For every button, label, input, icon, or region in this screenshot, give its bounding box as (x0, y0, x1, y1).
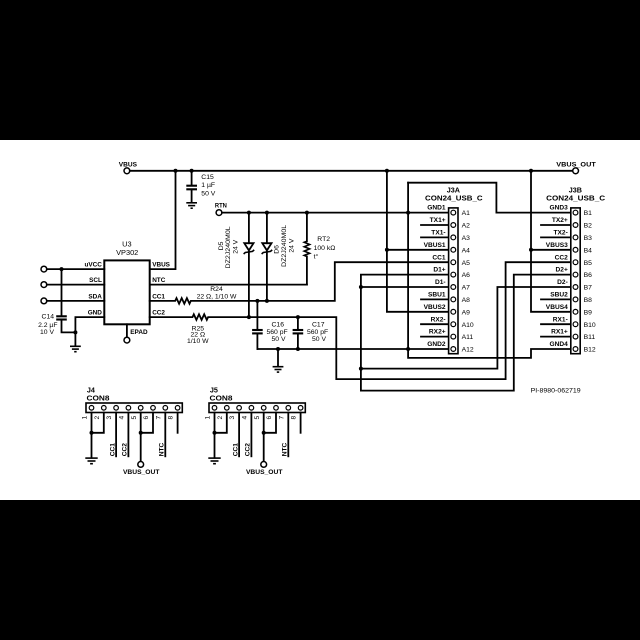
svg-text:CC2: CC2 (152, 310, 165, 317)
svg-text:B1: B1 (584, 210, 593, 217)
svg-text:VBUS1: VBUS1 (424, 242, 446, 249)
svg-text:A6: A6 (462, 272, 471, 279)
wire VBUS rail (130, 170, 573, 172)
wire GND2-GND4 link (below connectors) (408, 349, 571, 358)
wire TX2+ stub (541, 224, 571, 226)
junction GND2/C17 (296, 347, 300, 351)
zener diode D6 DZ2J240M0L (262, 213, 296, 301)
svg-text:DZ2J240M0L: DZ2J240M0L (225, 226, 232, 268)
junction J5 pins 5-6 (262, 431, 266, 435)
svg-text:B5: B5 (584, 260, 593, 267)
svg-text:D1+: D1+ (433, 267, 445, 274)
resistor R25 22 Ohm (CC2 net wire to J3B B5) (150, 262, 571, 379)
wire J5 pin8 stub (300, 413, 302, 433)
junction CC2/D5 (247, 315, 251, 319)
connector J3B CON24_USB_C (546, 185, 605, 353)
junction CC2/C17 (296, 315, 300, 319)
wire J4 pin3 CC1 stub (115, 413, 117, 457)
connector J3A CON24_USB_C (425, 185, 483, 353)
svg-text:1/10 W: 1/10 W (187, 338, 209, 345)
svg-text:A3: A3 (462, 235, 471, 242)
svg-text:1 µF: 1 µF (201, 182, 215, 189)
svg-text:VBUS: VBUS (152, 262, 170, 269)
svg-text:A1: A1 (462, 210, 471, 217)
svg-text:CON8: CON8 (210, 394, 233, 403)
svg-text:5: 5 (131, 416, 138, 420)
svg-text:24 V: 24 V (289, 238, 296, 252)
svg-text:VBUS2: VBUS2 (424, 304, 446, 311)
resistor R24 22 Ohm (CC1 net wire to J3A A5) (150, 262, 449, 304)
ground (C16/C17) (273, 349, 284, 372)
ground (J4) (85, 458, 97, 464)
svg-text:B3: B3 (584, 235, 593, 242)
svg-text:CC1: CC1 (432, 254, 446, 261)
svg-text:VBUS4: VBUS4 (546, 304, 568, 311)
svg-text:10 V: 10 V (40, 329, 54, 336)
ground (C15) (186, 203, 197, 208)
svg-text:CC2: CC2 (122, 443, 129, 457)
capacitor C15 (186, 171, 215, 203)
svg-text:1: 1 (205, 416, 212, 420)
svg-text:TX2+: TX2+ (552, 217, 568, 224)
wire VBUS3 to B4 (531, 249, 571, 251)
svg-text:7: 7 (278, 416, 285, 420)
svg-text:RX1+: RX1+ (551, 329, 568, 336)
svg-text:4: 4 (242, 416, 249, 420)
pin EPAD stub and terminal (124, 324, 148, 343)
svg-text:6: 6 (266, 416, 273, 420)
svg-text:1: 1 (82, 416, 89, 420)
wire SBU2 stub (541, 298, 571, 300)
wire SBU1 stub (421, 298, 449, 300)
wire uVCC (47, 268, 105, 270)
svg-text:C15: C15 (201, 174, 214, 181)
junction D1- (359, 285, 363, 289)
svg-text:CC1: CC1 (232, 443, 239, 457)
svg-text:B10: B10 (584, 322, 596, 329)
svg-text:SBU2: SBU2 (550, 292, 568, 299)
wire RX2+ stub (421, 336, 449, 338)
svg-text:uVCC: uVCC (84, 262, 102, 269)
svg-text:2: 2 (94, 416, 101, 420)
junction VBUS/U3 (174, 169, 178, 173)
svg-text:B8: B8 (584, 297, 593, 304)
capacitor C14 2.2uF (38, 269, 75, 336)
svg-text:SCL: SCL (89, 277, 102, 284)
svg-text:A4: A4 (462, 247, 471, 254)
zener diode D5 DZ2J240M0L (218, 213, 254, 318)
svg-text:NTC: NTC (282, 443, 289, 457)
svg-text:CON24_USB_C: CON24_USB_C (425, 194, 483, 203)
svg-text:TX2-: TX2- (554, 230, 568, 237)
ground (J5) (208, 458, 220, 464)
svg-text:A9: A9 (462, 309, 471, 316)
svg-text:4: 4 (119, 416, 126, 420)
svg-text:D2+: D2+ (556, 267, 568, 274)
wire GND3 link (over J3A to B1) (408, 183, 571, 213)
svg-text:B9: B9 (584, 309, 593, 316)
junction J4 pins 5-6 (139, 431, 143, 435)
capacitor C17 560 pF (293, 317, 329, 349)
junction VBUS/J3B column (529, 169, 533, 173)
svg-text:A5: A5 (462, 260, 471, 267)
junction CC1/D6 (265, 299, 269, 303)
svg-text:100 kΩ: 100 kΩ (314, 245, 336, 252)
svg-text:B4: B4 (584, 247, 593, 254)
svg-text:GND: GND (88, 310, 103, 317)
junction GND2/GND column (406, 347, 410, 351)
svg-text:B7: B7 (584, 285, 593, 292)
wire U3 GND pin down (75, 317, 104, 346)
junction GND/C14 (73, 330, 77, 334)
svg-text:VBUS_OUT: VBUS_OUT (123, 469, 160, 476)
svg-text:C14: C14 (42, 313, 55, 320)
connector J5 CON8 (209, 386, 305, 413)
wire VBUS column to VBUS1/VBUS2 (A4,A9) (387, 171, 449, 312)
wire J5 pin7 NTC stub (287, 413, 289, 457)
wire J5 pin3 CC1 stub (238, 413, 240, 457)
node J5 VBUS_OUT terminal (246, 462, 283, 476)
svg-text:VBUS: VBUS (119, 162, 138, 169)
wire RTN to GND junction (222, 212, 408, 214)
svg-text:50 V: 50 V (272, 336, 286, 343)
svg-text:22 Ω, 1/10 W: 22 Ω, 1/10 W (197, 293, 237, 300)
svg-text:5: 5 (254, 416, 261, 420)
svg-text:A10: A10 (462, 322, 474, 329)
svg-text:TX1-: TX1- (431, 230, 445, 237)
node RTN terminal (215, 203, 227, 216)
svg-text:RTN: RTN (215, 203, 227, 210)
wire RX2- stub (421, 323, 449, 325)
wire SDA (47, 300, 105, 302)
wire RX1- stub (541, 323, 571, 325)
svg-text:NTC: NTC (152, 277, 166, 284)
svg-text:t°: t° (314, 252, 319, 260)
node VBUS_OUT terminal (556, 162, 596, 174)
svg-text:RX2-: RX2- (431, 316, 446, 323)
IC U3 VP302 (104, 239, 149, 324)
svg-text:RX2+: RX2+ (429, 329, 446, 336)
junction GND/RTN/A1 (406, 211, 410, 215)
junction VBUS/J3A column (385, 169, 389, 173)
capacitor C16 560 pF (252, 301, 288, 349)
svg-text:50 V: 50 V (201, 190, 215, 197)
svg-text:CON24_USB_C: CON24_USB_C (546, 194, 605, 203)
wire D2- link to B7 (361, 287, 571, 369)
svg-text:GND2: GND2 (427, 341, 446, 348)
wire VBUS_OUT column to VBUS3/VBUS4 (B4,B9) (531, 171, 571, 312)
wire J5 pin4 CC2 stub (250, 413, 252, 457)
svg-text:A7: A7 (462, 285, 471, 292)
wire J4 pin2 tie (92, 413, 104, 433)
junction GND2/ground tap (276, 347, 280, 351)
node J4 VBUS_OUT terminal (123, 462, 160, 476)
svg-text:C17: C17 (312, 322, 325, 329)
wire GND2 row (C16/C17 bottoms to J3A A12) (257, 348, 448, 350)
svg-text:GND3: GND3 (549, 205, 568, 212)
wire VBUS to U3 VBUS pin (150, 171, 176, 269)
svg-text:B11: B11 (584, 334, 596, 341)
svg-text:SDA: SDA (88, 293, 102, 300)
wire D1- to A7 (361, 286, 449, 288)
svg-text:3: 3 (229, 416, 236, 420)
junction VBUS/C15 (190, 169, 194, 173)
svg-text:GND1: GND1 (427, 205, 446, 212)
svg-text:VBUS_OUT: VBUS_OUT (246, 469, 283, 476)
svg-text:50 V: 50 V (312, 336, 326, 343)
svg-text:A2: A2 (462, 223, 471, 230)
wire J4 pin8 stub (177, 413, 179, 433)
wire TX2- stub (541, 236, 571, 238)
svg-text:PI-8980-062719: PI-8980-062719 (531, 388, 581, 395)
svg-text:NTC: NTC (159, 443, 166, 457)
wire J4 pin7 NTC stub (164, 413, 166, 457)
wire TX1- stub (421, 236, 449, 238)
svg-text:24 V: 24 V (233, 239, 240, 253)
svg-text:B12: B12 (584, 347, 596, 354)
svg-text:RT2: RT2 (317, 236, 330, 243)
wire J4 pin4 CC2 stub (127, 413, 129, 457)
node uVCC terminal (41, 266, 47, 272)
wire TX1+ stub (421, 224, 449, 226)
svg-text:8: 8 (168, 416, 175, 420)
svg-text:7: 7 (155, 416, 162, 420)
node SDA terminal (41, 298, 47, 304)
junction RTN/D6 (265, 211, 269, 215)
wire SCL (47, 284, 105, 286)
connector J4 CON8 (86, 386, 182, 413)
node VBUS terminal (119, 162, 138, 174)
svg-text:CC1: CC1 (109, 443, 116, 457)
node SCL terminal (41, 282, 47, 288)
svg-text:CC1: CC1 (152, 293, 165, 300)
wire J5 pin1 to ground (214, 413, 216, 458)
svg-text:B6: B6 (584, 272, 593, 279)
svg-text:DZ2J240M0L: DZ2J240M0L (281, 225, 288, 267)
junction RTN/D5 (247, 211, 251, 215)
svg-text:6: 6 (143, 416, 150, 420)
svg-text:8: 8 (291, 416, 298, 420)
junction J5 pins 1-2 (213, 431, 217, 435)
svg-text:D6: D6 (273, 245, 280, 254)
wire RX1+ stub (541, 336, 571, 338)
wire VBUS1 to A4 (387, 249, 449, 251)
wire NTC net (U3 NTC to RT2) (150, 284, 307, 286)
svg-text:D2-: D2- (557, 279, 568, 286)
wire D1+ to A6 with tie column (361, 275, 571, 391)
svg-text:RX1-: RX1- (553, 316, 568, 323)
svg-text:D1-: D1- (435, 279, 446, 286)
junction D2- branch (359, 367, 363, 371)
svg-text:TX1+: TX1+ (430, 217, 446, 224)
svg-text:A12: A12 (462, 347, 474, 354)
svg-text:EPAD: EPAD (130, 329, 148, 336)
svg-text:2: 2 (217, 416, 224, 420)
wire J5 pin6 tie (264, 413, 276, 433)
junction RTN/RT2 (305, 211, 309, 215)
wire J5 pin5 to VBUS_OUT (263, 413, 265, 462)
svg-text:3: 3 (106, 416, 113, 420)
svg-text:SBU1: SBU1 (428, 292, 446, 299)
svg-text:CON8: CON8 (87, 394, 110, 403)
svg-text:VBUS_OUT: VBUS_OUT (556, 162, 596, 169)
svg-text:VP302: VP302 (116, 248, 138, 257)
junction VBUS3 (529, 248, 533, 252)
junction uVCC/C14 (60, 267, 64, 271)
wire J4 pin5 to VBUS_OUT (140, 413, 142, 462)
wire J4 pin1 to ground (91, 413, 93, 458)
wire J4 pin6 tie (141, 413, 153, 433)
svg-text:CC2: CC2 (555, 254, 569, 261)
svg-text:GND4: GND4 (549, 341, 568, 348)
svg-text:R24: R24 (210, 286, 223, 293)
svg-text:VBUS3: VBUS3 (546, 242, 568, 249)
ground (U3 GND) (70, 346, 81, 351)
svg-text:A8: A8 (462, 297, 471, 304)
junction VBUS1 (385, 248, 389, 252)
wire GND column left of J3A (RTN to A1..A12) (407, 183, 409, 349)
wire GND1 to A1 (408, 212, 449, 214)
svg-text:C16: C16 (272, 322, 285, 329)
svg-text:CC2: CC2 (245, 443, 252, 457)
wire J5 pin2 tie (215, 413, 227, 433)
thermistor RT2 100 kOhm (304, 213, 335, 285)
svg-text:A11: A11 (462, 334, 474, 341)
junction CC1/C16 (255, 299, 259, 303)
svg-text:B2: B2 (584, 223, 593, 230)
junction J4 pins 1-2 (90, 431, 94, 435)
